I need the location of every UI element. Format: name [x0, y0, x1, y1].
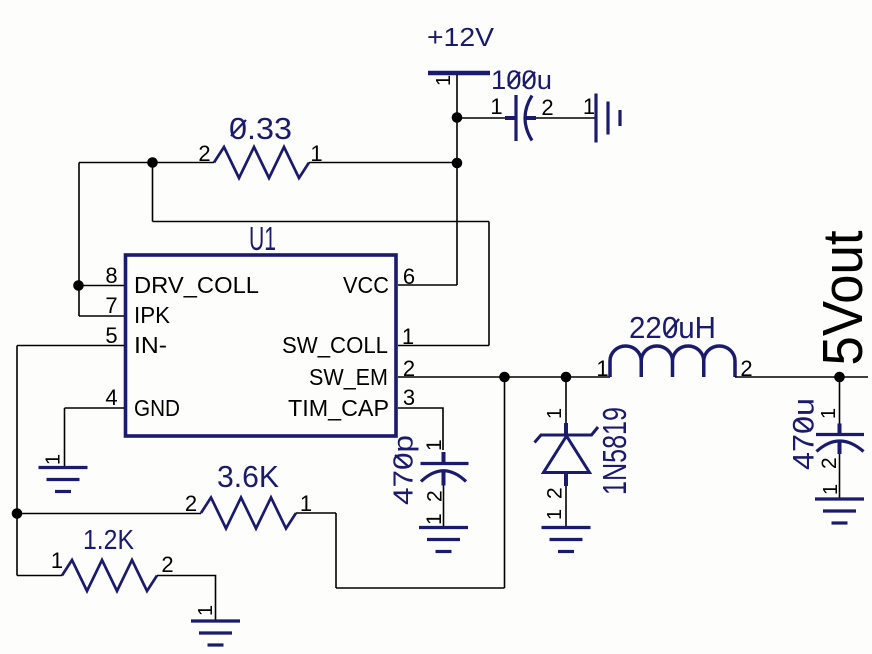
svg-text:0.33: 0.33	[229, 111, 292, 146]
svg-text:1: 1	[544, 408, 566, 419]
wire SW_EM pin 2 to inductor	[398, 376, 610, 378]
pin 1 label (gnd G2)	[195, 605, 217, 616]
value 0.33	[229, 111, 292, 146]
pin 2 label (inductor right)	[740, 356, 752, 381]
pin 2 label (470u bottom)	[818, 457, 841, 469]
svg-text:1: 1	[43, 454, 65, 465]
svg-text:1: 1	[490, 94, 502, 119]
svg-text:1: 1	[423, 439, 446, 451]
svg-text:470p: 470p	[388, 435, 419, 505]
svg-text:+12V: +12V	[427, 22, 495, 52]
capacitor C 470u	[816, 424, 864, 455]
pin name GND	[134, 395, 180, 421]
svg-text:1: 1	[596, 356, 608, 381]
svg-text:1: 1	[195, 605, 217, 616]
pin name IN-	[134, 332, 167, 358]
pin number 4	[105, 385, 117, 410]
pin 2 label (1.2K right)	[161, 552, 173, 577]
wire VCC pin 6	[398, 284, 457, 286]
pin 1 label (diode top)	[544, 408, 566, 419]
wire pin 5 to left	[17, 345, 124, 347]
pin number 1	[402, 324, 414, 349]
resistor 0.33	[214, 147, 309, 178]
wire diode tap down	[565, 377, 567, 423]
capacitor C 100u	[505, 95, 536, 141]
svg-text:5: 5	[105, 323, 117, 348]
wire pin 4 down to ground	[64, 408, 66, 467]
wire feedback node to 1.2K	[17, 575, 62, 577]
wire output to 470u	[839, 377, 841, 424]
svg-text:IN-: IN-	[134, 332, 167, 358]
svg-text:2: 2	[544, 487, 567, 499]
node junction on rail (resistor tap)	[452, 158, 463, 169]
U1 designator	[249, 220, 276, 257]
svg-text:2: 2	[818, 457, 841, 469]
wire left drop to pins 8,7	[78, 163, 80, 317]
svg-text:1: 1	[818, 408, 840, 419]
pin 1 label (470p top)	[423, 439, 446, 451]
svg-text:4: 4	[105, 385, 117, 410]
node junction left of resistor	[147, 157, 158, 168]
svg-text:5Vout: 5Vout	[811, 230, 872, 365]
ground G4 (diode)	[542, 528, 591, 552]
wire feedback riser	[335, 513, 337, 588]
diode D 1N5819	[535, 423, 599, 486]
svg-text:DRV_COLL: DRV_COLL	[134, 272, 259, 298]
pin 1 label (gnd G5)	[820, 484, 842, 495]
pin 1 label (right ground)	[583, 94, 595, 119]
wire SW_COLL riser	[488, 222, 490, 346]
wire 100u to ground	[536, 117, 596, 119]
svg-text:3: 3	[403, 385, 415, 410]
svg-text:7: 7	[105, 293, 117, 318]
svg-text:1: 1	[423, 513, 446, 525]
pin name DRV_COLL	[134, 272, 259, 298]
pin 1 label (inductor left)	[596, 356, 608, 381]
wire left vertical to feedback node	[16, 346, 18, 576]
wire junction down	[152, 163, 154, 222]
pin 1 label (1.2K left)	[51, 548, 63, 573]
pin 1 label (0.33 right)	[310, 141, 322, 166]
wire horizontal to SW_COLL riser	[153, 221, 490, 223]
wire +12V rail	[456, 75, 458, 285]
resistor 3.6K	[201, 498, 296, 529]
wire 470u to ground	[839, 454, 841, 499]
svg-text:1N5819: 1N5819	[596, 407, 633, 495]
svg-text:1: 1	[544, 509, 566, 520]
pin number 8	[105, 263, 117, 288]
wire 470p to ground	[443, 486, 445, 528]
value 100u	[491, 65, 552, 95]
svg-text:220uH: 220uH	[629, 310, 716, 345]
ground G2 (1.2K)	[191, 621, 240, 645]
value 220uH	[629, 310, 716, 345]
svg-text:GND: GND	[134, 395, 180, 421]
wire feedback drop	[504, 377, 506, 588]
pin number 2	[403, 356, 415, 381]
wire resistor left	[79, 162, 214, 164]
pin 1 label (gnd G4)	[544, 509, 566, 520]
power +12V label	[427, 22, 495, 52]
node junction feedback	[12, 508, 23, 519]
pin 2 label (470p bottom)	[424, 490, 447, 502]
svg-text:VCC: VCC	[343, 272, 389, 298]
pin 2 label (0.33 left)	[198, 141, 210, 166]
inductor L 220uH	[610, 346, 735, 377]
svg-text:1.2K: 1.2K	[83, 524, 134, 555]
op-amp U1 body	[126, 255, 397, 436]
svg-text:8: 8	[105, 263, 117, 288]
svg-text:1: 1	[300, 491, 312, 516]
value 470p (rotated)	[388, 435, 419, 505]
wire rail to C 100u	[457, 117, 505, 119]
node junction on rail (cap tap)	[452, 112, 463, 123]
capacitor C 470p	[421, 452, 469, 486]
svg-text:1: 1	[583, 94, 595, 119]
pin name SW_EM	[309, 364, 388, 390]
wire SW_COLL pin 1	[398, 345, 489, 347]
pin name SW_COLL	[282, 332, 388, 358]
value 470u (rotated)	[788, 398, 821, 470]
value 3.6K	[217, 459, 279, 494]
pin 2 label (100u right)	[541, 95, 553, 120]
node junction pin 8	[73, 280, 84, 291]
svg-text:470u: 470u	[788, 398, 821, 470]
ground (rotated, right of 100u)	[596, 94, 620, 143]
wire 3.6K right stub	[296, 512, 336, 514]
pin 1 label (100u left)	[490, 94, 502, 119]
svg-text:1: 1	[51, 548, 63, 573]
pin 2 label (diode bottom)	[544, 487, 567, 499]
svg-text:U1: U1	[249, 220, 276, 257]
power bar symbol	[428, 71, 490, 76]
pin 1 label (gnd G3)	[423, 513, 446, 525]
ground G1 (pin 4)	[39, 468, 88, 492]
node junction SW_EM / feedback drop	[499, 372, 510, 383]
pin number 3	[403, 385, 415, 410]
ground G5 (470u)	[815, 499, 864, 523]
pin number 6	[403, 264, 415, 289]
svg-text:1: 1	[433, 75, 455, 86]
value 1.2K	[83, 524, 134, 555]
svg-text:2: 2	[161, 552, 173, 577]
pin name IPK	[134, 302, 171, 328]
pin 2 label (3.6K left)	[185, 491, 197, 516]
net label 5Vout (rotated)	[811, 230, 872, 365]
wire pin 4 stub	[65, 407, 125, 409]
svg-text:TIM_CAP: TIM_CAP	[288, 395, 389, 421]
pin 1 label (470u top)	[818, 408, 840, 419]
svg-text:3.6K: 3.6K	[217, 459, 279, 494]
wire feedback node to 3.6K	[17, 513, 201, 515]
wire TIM_CAP pin 3	[398, 408, 443, 450]
svg-text:SW_COLL: SW_COLL	[282, 332, 388, 358]
svg-text:IPK: IPK	[134, 302, 171, 328]
node junction output	[834, 372, 845, 383]
pin label 1 (power)	[433, 75, 455, 86]
pin number 5	[105, 323, 117, 348]
pin 1 label (3.6K right)	[300, 491, 312, 516]
ground G3 (470p)	[419, 528, 468, 552]
pin name TIM_CAP	[288, 395, 389, 421]
wire diode to ground	[565, 486, 567, 527]
wire pin 7 stub	[79, 315, 124, 317]
wire resistor right to rail	[309, 162, 457, 164]
svg-text:2: 2	[541, 95, 553, 120]
wire pin 8 stub	[79, 285, 124, 287]
value 1N5819 (rotated)	[596, 407, 633, 495]
svg-text:1: 1	[820, 484, 842, 495]
svg-text:SW_EM: SW_EM	[309, 364, 388, 390]
svg-text:2: 2	[185, 491, 197, 516]
pin 1 label (gnd G1)	[43, 454, 65, 465]
wire feedback bottom horizontal	[336, 587, 505, 589]
wire 1.2K to ground	[157, 576, 216, 621]
pin number 7	[105, 293, 117, 318]
pin name VCC	[343, 272, 389, 298]
resistor 1.2K	[62, 560, 157, 591]
node junction diode tap	[561, 372, 572, 383]
wire inductor to output	[735, 376, 868, 378]
svg-text:100u: 100u	[491, 65, 552, 95]
